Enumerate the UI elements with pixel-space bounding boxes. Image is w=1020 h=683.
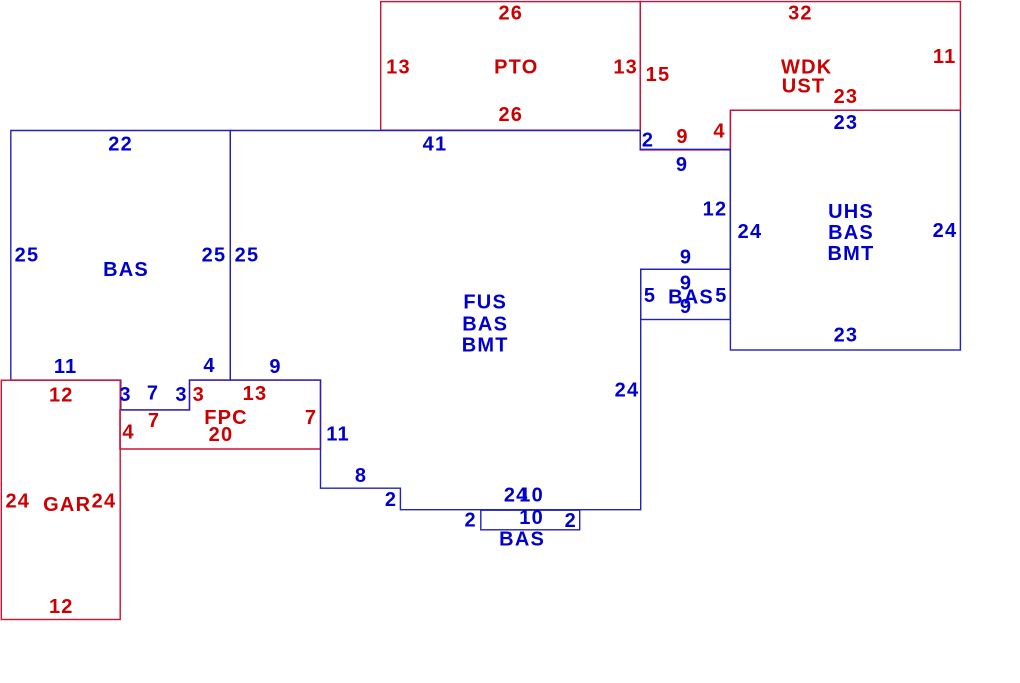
- svg-text:BAS: BAS: [499, 529, 545, 551]
- svg-text:BAS: BAS: [103, 259, 149, 281]
- PTO patio rectangle outline: [381, 2, 641, 131]
- svg-text:3: 3: [175, 384, 187, 406]
- svg-text:24: 24: [5, 491, 30, 513]
- svg-text:11: 11: [326, 424, 350, 446]
- svg-text:26: 26: [498, 104, 523, 126]
- svg-text:4: 4: [713, 121, 725, 143]
- svg-text:2: 2: [565, 510, 577, 532]
- svg-text:12: 12: [49, 385, 74, 407]
- svg-text:9: 9: [269, 356, 281, 378]
- svg-text:9: 9: [680, 296, 692, 318]
- BAS left area polygon outline (with bottom bump): [11, 131, 231, 410]
- svg-text:10: 10: [519, 507, 544, 529]
- svg-text:2: 2: [465, 509, 477, 531]
- svg-text:26: 26: [498, 3, 523, 25]
- svg-text:24: 24: [738, 221, 763, 243]
- svg-text:3: 3: [119, 384, 131, 406]
- svg-text:22: 22: [108, 134, 133, 156]
- svg-text:8: 8: [355, 465, 367, 487]
- FUS main area polygon outline: [230, 131, 730, 510]
- svg-text:13: 13: [243, 383, 268, 405]
- svg-text:23: 23: [834, 112, 859, 134]
- WDK UST deck polygon outline: [640, 2, 960, 150]
- small BAS rectangle bottom outline: [481, 510, 580, 530]
- svg-text:23: 23: [834, 325, 859, 347]
- FPC porch polygon outline: [120, 380, 321, 449]
- svg-text:15: 15: [646, 64, 671, 86]
- svg-text:7: 7: [305, 407, 317, 429]
- svg-text:11: 11: [933, 46, 957, 68]
- svg-text:4: 4: [122, 422, 134, 444]
- small BAS rectangle right outline: [641, 269, 731, 319]
- svg-text:24: 24: [615, 380, 640, 402]
- svg-text:11: 11: [54, 356, 78, 378]
- svg-text:4: 4: [203, 355, 215, 377]
- svg-text:9: 9: [680, 246, 692, 268]
- svg-text:25: 25: [202, 245, 227, 267]
- svg-text:9: 9: [676, 154, 688, 176]
- svg-text:3: 3: [193, 384, 205, 406]
- svg-text:10: 10: [519, 484, 544, 506]
- svg-text:BMT: BMT: [828, 243, 875, 265]
- svg-text:7: 7: [148, 410, 160, 432]
- svg-text:20: 20: [209, 424, 234, 446]
- svg-text:UHS: UHS: [828, 201, 874, 223]
- svg-text:24: 24: [933, 220, 958, 242]
- svg-text:13: 13: [386, 57, 411, 79]
- svg-text:9: 9: [676, 126, 688, 148]
- svg-text:13: 13: [613, 57, 638, 79]
- GAR garage rectangle outline: [1, 380, 120, 619]
- svg-text:25: 25: [235, 245, 260, 267]
- svg-text:32: 32: [788, 3, 813, 25]
- svg-text:BMT: BMT: [462, 335, 509, 357]
- svg-text:GAR: GAR: [43, 494, 91, 516]
- svg-text:FUS: FUS: [463, 292, 507, 314]
- svg-text:5: 5: [715, 285, 727, 307]
- svg-text:41: 41: [423, 134, 448, 156]
- svg-text:2: 2: [385, 489, 397, 511]
- svg-text:25: 25: [15, 245, 40, 267]
- svg-text:BAS: BAS: [462, 313, 508, 335]
- svg-text:23: 23: [834, 86, 859, 108]
- svg-text:12: 12: [703, 199, 728, 221]
- svg-text:BAS: BAS: [828, 222, 874, 244]
- svg-text:PTO: PTO: [494, 57, 538, 79]
- svg-text:UST: UST: [782, 76, 826, 98]
- svg-text:24: 24: [92, 491, 117, 513]
- UHS area rectangle outline: [730, 110, 960, 350]
- svg-text:12: 12: [49, 596, 74, 618]
- svg-text:2: 2: [642, 130, 654, 152]
- svg-text:7: 7: [147, 383, 159, 405]
- svg-text:5: 5: [644, 285, 656, 307]
